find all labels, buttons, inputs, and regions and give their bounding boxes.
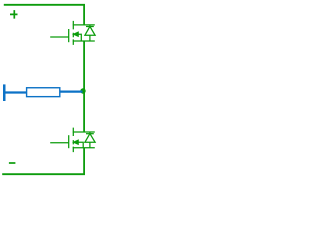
wire: positive supply rail (top) (4, 5, 84, 25)
transistor Q1 (top N-MOSFET) (50, 21, 95, 45)
wire: resistor to output node (blue) (60, 90, 83, 92)
node label + (positive polarity) (10, 10, 18, 19)
wire: Q1 source to output node (83, 41, 85, 91)
transistor Q2 (bottom N-MOSFET) (50, 128, 95, 153)
resistor R1 (blue, box style) (27, 88, 60, 97)
node label - (negative polarity) (9, 162, 16, 164)
diode D2 (body diode of Q2) (85, 132, 95, 148)
wire: Q2 source to negative rail (2, 148, 84, 175)
wire: port to resistor (blue) (6, 91, 28, 93)
port P1 (terminal bar, highlighted blue) (3, 84, 6, 101)
diode D1 (body diode of Q1) (85, 25, 95, 41)
wire: output node to Q2 drain (83, 91, 85, 132)
node: output junction dot (80, 88, 85, 93)
